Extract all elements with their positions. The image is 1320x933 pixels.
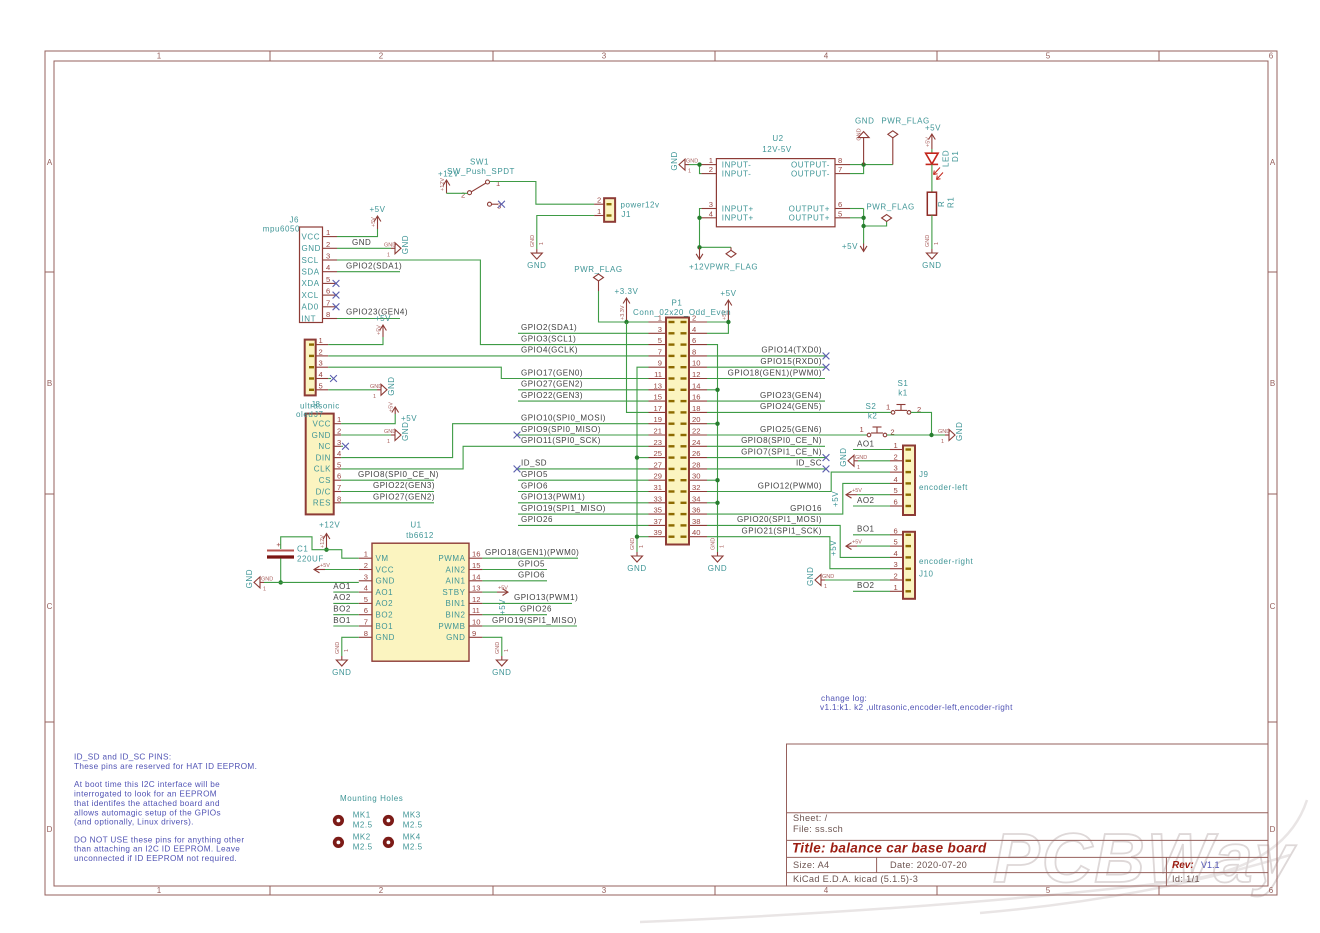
svg-text:+5V: +5V: [375, 314, 391, 323]
svg-text:A: A: [47, 158, 53, 167]
svg-text:+12V: +12V: [320, 535, 326, 548]
svg-text:R1: R1: [947, 197, 956, 208]
wire P1 pin 10: [707, 366, 825, 368]
wire U2 output- to GND/PWR_FLAG: [850, 164, 893, 166]
svg-text:1: 1: [157, 52, 162, 61]
wire GPIO21 to J10 pin3: [707, 537, 890, 569]
svg-text:B: B: [1270, 379, 1275, 388]
svg-text:5: 5: [319, 381, 323, 390]
svg-text:+12V: +12V: [440, 178, 446, 191]
svg-text:These pins are reserved for HA: These pins are reserved for HAT ID EEPRO…: [74, 762, 257, 771]
svg-text:GPIO6: GPIO6: [521, 481, 548, 490]
svg-text:3: 3: [894, 464, 898, 473]
wire P1 pin 27: [518, 468, 649, 470]
svg-text:1: 1: [337, 415, 341, 424]
svg-text:2: 2: [319, 347, 323, 356]
ground (R1): [926, 249, 937, 259]
svg-text:M2.5: M2.5: [403, 821, 423, 830]
svg-text:KiCad E.D.A. kicad (5.1.5)-3: KiCad E.D.A. kicad (5.1.5)-3: [793, 874, 918, 884]
svg-text:6: 6: [838, 200, 842, 209]
svg-text:GND: GND: [670, 151, 679, 170]
svg-text:5: 5: [894, 538, 898, 547]
net label GPIO19(SPI1_MISO) (U1 PWMB) + wire: [482, 625, 577, 627]
svg-text:Rev:: Rev:: [1172, 860, 1194, 871]
svg-text:19: 19: [654, 415, 662, 424]
svg-text:D: D: [47, 825, 53, 834]
svg-text:ID_SD and ID_SC PINS:: ID_SD and ID_SC PINS:: [74, 753, 171, 762]
svg-text:5: 5: [894, 486, 898, 495]
svg-text:DO NOT USE these pins for anyt: DO NOT USE these pins for anything other: [74, 836, 244, 845]
svg-text:GND: GND: [938, 429, 950, 435]
svg-text:4: 4: [894, 549, 898, 558]
connector J10 encoder-right: [890, 526, 974, 599]
svg-text:GPIO20(SPI1_MOSI): GPIO20(SPI1_MOSI): [737, 515, 822, 524]
svg-text:encoder-left: encoder-left: [919, 483, 968, 492]
switch S1 k1: [886, 379, 921, 414]
svg-text:6: 6: [692, 336, 696, 345]
svg-text:MK4: MK4: [403, 832, 421, 841]
wire P1 pin 8: [707, 355, 825, 357]
svg-text:GPIO14(TXD0): GPIO14(TXD0): [761, 346, 822, 355]
svg-text:CS: CS: [319, 476, 331, 485]
svg-text:1: 1: [319, 336, 323, 345]
svg-text:6: 6: [364, 606, 368, 615]
svg-text:J6: J6: [289, 216, 299, 225]
no-connect GPIO7: [823, 454, 830, 461]
svg-text:GPIO2(SDA1): GPIO2(SDA1): [521, 323, 577, 332]
svg-text:16: 16: [472, 550, 480, 559]
wire C1 to +12V to U1 VM: [281, 537, 327, 550]
svg-text:1: 1: [639, 545, 645, 548]
svg-text:5: 5: [838, 209, 842, 218]
svg-text:GPIO11(SPI0_SCK): GPIO11(SPI0_SCK): [521, 436, 601, 445]
svg-text:38: 38: [692, 517, 700, 526]
svg-text:than attaching an I2C ID EEPRO: than attaching an I2C ID EEPROM. Leave: [74, 845, 240, 854]
svg-text:29: 29: [654, 472, 662, 481]
svg-text:PWMA: PWMA: [438, 554, 465, 563]
svg-text:2: 2: [692, 314, 696, 323]
svg-text:3: 3: [894, 560, 898, 569]
svg-text:change log:: change log:: [821, 694, 867, 703]
svg-text:At boot time this I2C interfac: At boot time this I2C interface will be: [74, 780, 220, 789]
svg-text:18: 18: [692, 404, 700, 413]
svg-text:31: 31: [654, 483, 662, 492]
svg-text:D1: D1: [951, 151, 960, 162]
svg-text:GPIO16: GPIO16: [790, 504, 822, 513]
net label AO2 (U1 pin5) + wire: [333, 602, 359, 604]
capacitor C1 220UF: [267, 540, 324, 564]
net label AO1 (J9 pin1) + wire: [853, 449, 890, 451]
svg-text:28: 28: [692, 460, 700, 469]
svg-text:OUTPUT-: OUTPUT-: [791, 169, 830, 178]
svg-text:Title: balance car base board: Title: balance car base board: [792, 841, 987, 856]
svg-text:GND: GND: [711, 538, 717, 550]
svg-text:22: 22: [692, 427, 700, 436]
svg-text:GPIO7(SPI1_CE_N): GPIO7(SPI1_CE_N): [741, 447, 822, 456]
svg-text:AO2: AO2: [857, 496, 875, 505]
svg-text:5: 5: [1046, 52, 1051, 61]
svg-text:1: 1: [709, 156, 713, 165]
junction (P1 pin 20): [715, 422, 719, 426]
svg-text:NC: NC: [318, 442, 331, 451]
svg-text:GND: GND: [839, 447, 848, 466]
svg-text:C: C: [47, 602, 53, 611]
svg-text:GPIO5: GPIO5: [518, 559, 545, 568]
GND bus right of P1: [707, 345, 718, 552]
junction (S1/S2 GND): [929, 433, 933, 437]
svg-text:GND: GND: [261, 576, 273, 582]
svg-text:7: 7: [658, 347, 662, 356]
svg-text:AO1: AO1: [857, 439, 875, 448]
ground (J1 pin1): [531, 249, 542, 259]
svg-text:P1: P1: [672, 299, 683, 308]
svg-text:File: ss.sch: File: ss.sch: [793, 824, 843, 834]
junction (P1 pin2): [726, 320, 730, 324]
svg-text:GND: GND: [384, 429, 396, 435]
svg-text:1: 1: [857, 465, 860, 471]
note: change log: [820, 694, 1013, 712]
ground (S1/S2): [945, 430, 955, 441]
power flag PWR_FLAG (output GND): [888, 131, 898, 165]
svg-text:GPIO18(GEN1)(PWM0): GPIO18(GEN1)(PWM0): [728, 368, 822, 377]
junction (U2 pin4): [697, 216, 701, 220]
ground (C1/U1): [254, 577, 264, 588]
power flag PWR_FLAG (+12V): [726, 247, 736, 257]
svg-text:1: 1: [263, 586, 266, 592]
svg-text:DIN: DIN: [316, 453, 331, 462]
svg-text:20: 20: [692, 415, 700, 424]
svg-text:GPIO3(SCL1): GPIO3(SCL1): [521, 334, 576, 343]
wire GPIO25 to S2: [707, 434, 867, 436]
junction (P1 pin 30): [715, 478, 719, 482]
svg-text:1: 1: [496, 179, 500, 188]
svg-text:23: 23: [654, 438, 662, 447]
no-connect ID_SD: [514, 466, 521, 473]
svg-text:GND: GND: [387, 376, 396, 395]
wire GPIO16 to J9 pin4: [707, 483, 890, 514]
net label BO1 (J10 pin6) + wire: [853, 534, 890, 536]
svg-text:BIN1: BIN1: [446, 599, 466, 608]
no-connect J6 pins 5-7: [333, 280, 340, 287]
junction (P1 pin 14): [715, 388, 719, 392]
svg-text:XDA: XDA: [302, 279, 320, 288]
wire J6 SCL to P1 pin5: [337, 260, 649, 345]
svg-text:GPIO19(SPI1_MISO): GPIO19(SPI1_MISO): [521, 504, 606, 513]
wire J8 pin5 to GND: [328, 389, 377, 391]
svg-text:4: 4: [337, 449, 341, 458]
svg-text:24: 24: [692, 438, 700, 447]
svg-text:A: A: [1270, 158, 1276, 167]
mounting hole MK4: [383, 832, 423, 851]
svg-text:+12V: +12V: [438, 170, 459, 179]
svg-text:40: 40: [692, 528, 700, 537]
svg-text:J1: J1: [621, 210, 631, 219]
ground (J6 pin2): [391, 243, 401, 254]
svg-text:R: R: [937, 201, 946, 207]
svg-text:15: 15: [472, 561, 480, 570]
svg-text:GPIO13(PWM1): GPIO13(PWM1): [521, 493, 585, 502]
svg-text:INPUT+: INPUT+: [722, 204, 754, 213]
no-connect J8 pin4: [328, 378, 331, 380]
svg-text:B: B: [47, 379, 52, 388]
svg-text:GND: GND: [857, 128, 863, 140]
wire +12V to SW1 pin2: [447, 192, 468, 194]
svg-text:GND: GND: [245, 569, 254, 588]
svg-text:GPIO17(GEN0): GPIO17(GEN0): [521, 368, 583, 377]
svg-text:6: 6: [337, 472, 341, 481]
svg-text:1: 1: [387, 439, 390, 445]
svg-text:GPIO6: GPIO6: [518, 571, 545, 580]
svg-text:AIN2: AIN2: [446, 565, 466, 574]
wire SW1 pin1 to J1 pin2: [490, 182, 595, 205]
power +5V (U2 output): [860, 244, 867, 252]
net label AO2 (J9 pin6) + wire: [853, 505, 890, 507]
svg-text:11: 11: [472, 606, 480, 615]
svg-text:1: 1: [894, 583, 898, 592]
switch SW1 SW_Push_SPDT: [447, 158, 515, 211]
wire C1 to GND rail: [280, 559, 282, 583]
svg-text:12V-5V: 12V-5V: [762, 145, 792, 154]
svg-text:5: 5: [1046, 886, 1051, 895]
power +5V (J6): [374, 216, 381, 229]
ground (J9 pin2): [848, 455, 858, 466]
svg-text:allows automagic setup of the: allows automagic setup of the GPIOs: [74, 808, 221, 817]
svg-text:that identifes the attached bo: that identifes the attached board and: [74, 799, 220, 808]
svg-text:+5V: +5V: [831, 491, 840, 507]
wire P1 pin 29: [518, 479, 649, 481]
svg-text:V1.1: V1.1: [1201, 860, 1220, 870]
ground (P1 left): [632, 552, 643, 562]
junction (+12V / C1 / U1 VM): [324, 548, 328, 552]
svg-text:power12v: power12v: [621, 201, 660, 210]
svg-text:OUTPUT+: OUTPUT+: [789, 204, 830, 213]
svg-text:GPIO9(SPI0_MISO): GPIO9(SPI0_MISO): [521, 425, 601, 434]
svg-text:PWR_FLAG: PWR_FLAG: [866, 202, 914, 211]
wire P1 pin 35: [518, 513, 649, 515]
svg-text:26: 26: [692, 449, 700, 458]
wire J8 pin3 to P1 pin11 (GPIO17): [328, 367, 648, 378]
svg-text:10: 10: [472, 618, 480, 627]
svg-text:8: 8: [326, 310, 330, 319]
svg-text:3: 3: [658, 325, 662, 334]
ground (J8 pin5): [377, 384, 387, 395]
svg-text:OUTPUT-: OUTPUT-: [791, 160, 830, 169]
net label GPIO26 (U1 BIN2) + wire: [482, 614, 547, 616]
svg-text:8: 8: [692, 347, 696, 356]
svg-text:GND: GND: [401, 422, 410, 441]
svg-text:GPIO15(RXD0): GPIO15(RXD0): [760, 357, 822, 366]
svg-text:27: 27: [654, 460, 662, 469]
ground (U2 input-): [679, 159, 689, 170]
svg-text:1: 1: [894, 441, 898, 450]
svg-text:GND: GND: [708, 564, 727, 573]
mounting hole MK1: [333, 811, 373, 830]
svg-text:+5V: +5V: [852, 540, 862, 546]
LED D1: [926, 150, 960, 180]
svg-text:5: 5: [326, 275, 330, 284]
svg-text:GPIO8(SPI0_CE_N): GPIO8(SPI0_CE_N): [358, 470, 439, 479]
svg-text:16: 16: [692, 393, 700, 402]
svg-text:GPIO22(GEN3): GPIO22(GEN3): [373, 481, 435, 490]
svg-text:37: 37: [654, 517, 662, 526]
svg-text:+5V: +5V: [389, 402, 395, 412]
svg-text:M2.5: M2.5: [353, 842, 373, 851]
svg-text:GND: GND: [530, 235, 536, 247]
svg-text:GND: GND: [370, 384, 382, 390]
svg-text:+5V: +5V: [377, 325, 383, 335]
svg-text:14: 14: [472, 572, 480, 581]
junction (U2 pin8): [861, 162, 865, 166]
svg-text:GND: GND: [806, 567, 815, 586]
svg-text:35: 35: [654, 506, 662, 515]
svg-text:+12V: +12V: [319, 521, 340, 530]
wire S1 pin2 to GND node: [911, 412, 932, 435]
svg-text:C: C: [1270, 602, 1276, 611]
wire 3.3V to P1 pin17: [627, 322, 649, 412]
no-connect J7 NC: [341, 445, 343, 447]
svg-text:4: 4: [326, 263, 330, 272]
net label BO1 (U1 pin7) + wire: [333, 625, 359, 627]
svg-text:SCL: SCL: [302, 256, 319, 265]
svg-text:2: 2: [597, 196, 601, 205]
svg-text:encoder-right: encoder-right: [919, 557, 974, 566]
wire J7 CLK to P1 pin23 (GPIO11): [341, 446, 648, 469]
wire P1 pin 26: [707, 457, 825, 459]
svg-text:+5V: +5V: [925, 137, 931, 147]
ground (P1 right): [712, 552, 723, 562]
svg-text:5: 5: [364, 595, 368, 604]
svg-text:GND: GND: [312, 431, 331, 440]
svg-text:+5V: +5V: [842, 242, 858, 251]
wire GND rail to U1 pin3: [264, 581, 359, 583]
net label BO2 (J10 pin1) + wire: [853, 590, 890, 592]
svg-text:oled: oled: [296, 410, 313, 419]
svg-text:VM: VM: [376, 554, 389, 563]
switch S2 k2: [860, 402, 895, 437]
svg-text:GND: GND: [527, 261, 546, 270]
svg-text:D/C: D/C: [316, 487, 331, 496]
svg-text:BO1: BO1: [376, 622, 394, 631]
wire P1 pin 33: [518, 502, 649, 504]
svg-text:XCL: XCL: [302, 291, 319, 300]
net label GPIO13(PWM1) (U1 BIN1) + wire: [482, 602, 572, 604]
svg-text:AO2: AO2: [333, 593, 351, 602]
ground (U1 pin9): [496, 656, 507, 666]
no-connect SW1 pin3: [498, 201, 505, 208]
svg-text:Date: 2020-07-20: Date: 2020-07-20: [890, 860, 967, 870]
svg-text:1: 1: [387, 252, 390, 258]
junction (P1 pin 34): [715, 501, 719, 505]
wire P1 pin 13: [518, 389, 649, 391]
svg-text:2: 2: [379, 886, 384, 895]
svg-text:GND: GND: [855, 117, 874, 126]
wire U1 pin8 to GND: [342, 637, 359, 656]
svg-text:11: 11: [654, 370, 662, 379]
no-connect ID_SC: [823, 466, 830, 473]
svg-text:7: 7: [838, 165, 842, 174]
mounting hole MK2: [333, 832, 373, 851]
note: ID_SD / ID_SC text block: [74, 753, 257, 864]
svg-text:AIN1: AIN1: [446, 577, 466, 586]
net label GPIO18(GEN1)(PWM0) (U1 PWMA) + wire: [482, 557, 578, 559]
svg-text:INPUT-: INPUT-: [722, 169, 752, 178]
svg-text:VCC: VCC: [376, 565, 395, 574]
svg-text:GPIO18(GEN1)(PWM0): GPIO18(GEN1)(PWM0): [485, 548, 579, 557]
wire LED to R1: [931, 164, 933, 192]
power +5V (J9 pin5): [857, 494, 890, 496]
svg-text:PWMB: PWMB: [438, 622, 465, 631]
svg-text:3: 3: [326, 252, 330, 261]
svg-text:7: 7: [364, 618, 368, 627]
junction (+12V node): [697, 245, 701, 249]
svg-text:SDA: SDA: [302, 268, 320, 277]
svg-text:GPIO25(GEN6): GPIO25(GEN6): [760, 425, 822, 434]
svg-text:GPIO26: GPIO26: [521, 515, 553, 524]
svg-text:D: D: [1270, 825, 1276, 834]
svg-text:GND: GND: [302, 244, 321, 253]
power +5V (J8): [380, 325, 387, 337]
svg-text:1: 1: [504, 649, 510, 652]
svg-text:25: 25: [654, 449, 662, 458]
svg-text:9: 9: [658, 359, 662, 368]
svg-text:8: 8: [337, 494, 341, 503]
connector P1 Conn_02x20_Odd_Even (RPi 40-pin header): [633, 299, 731, 545]
wire P1 pin 21: [518, 434, 649, 436]
net label GPIO8(SPI0_CE_N) (J7 CS) + wire: [341, 479, 434, 481]
svg-text:GPIO10(SPI0_MOSI): GPIO10(SPI0_MOSI): [521, 414, 606, 423]
wire J6 pin1 to +5V: [337, 229, 378, 237]
svg-text:32: 32: [692, 483, 700, 492]
junction (+5V node): [861, 224, 865, 228]
svg-text:(and optionally, Linux drivers: (and optionally, Linux drivers).: [74, 818, 194, 827]
svg-text:+3.3V: +3.3V: [620, 305, 626, 320]
junction (P1 pin1 3.3V): [624, 320, 628, 324]
power +5V (J10 pin5): [857, 545, 890, 547]
junction (C1 GND): [279, 580, 283, 584]
svg-text:AO1: AO1: [376, 588, 394, 597]
svg-text:1: 1: [688, 169, 691, 175]
svg-text:+5V: +5V: [498, 586, 508, 592]
svg-text:SW1: SW1: [470, 158, 489, 167]
svg-text:1: 1: [344, 649, 350, 652]
power +5V (J7): [392, 407, 399, 414]
svg-text:8: 8: [838, 156, 842, 165]
svg-text:3: 3: [602, 52, 607, 61]
svg-text:6: 6: [1269, 886, 1274, 895]
svg-text:BO2: BO2: [376, 611, 394, 620]
svg-text:STBY: STBY: [442, 588, 465, 597]
svg-text:Sheet: /: Sheet: /: [793, 813, 828, 823]
wire GPIO20 to J10 pin4: [707, 525, 890, 557]
svg-text:2: 2: [364, 561, 368, 570]
svg-text:6: 6: [326, 287, 330, 296]
svg-text:7: 7: [337, 483, 341, 492]
svg-text:1: 1: [941, 439, 944, 445]
svg-text:INT: INT: [302, 314, 317, 323]
power flag PWR_FLAG (+5V): [882, 215, 892, 222]
svg-text:GPIO19(SPI1_MISO): GPIO19(SPI1_MISO): [492, 616, 577, 625]
svg-text:BO1: BO1: [333, 616, 351, 625]
wire R1 to GND: [931, 215, 933, 249]
net label BO2 (U1 pin6) + wire: [333, 614, 359, 616]
svg-text:GND: GND: [925, 235, 931, 247]
svg-text:10: 10: [692, 359, 700, 368]
svg-text:6: 6: [894, 498, 898, 507]
svg-text:3: 3: [709, 200, 713, 209]
svg-text:5: 5: [337, 460, 341, 469]
svg-text:4: 4: [692, 325, 696, 334]
svg-text:+: +: [276, 540, 281, 549]
